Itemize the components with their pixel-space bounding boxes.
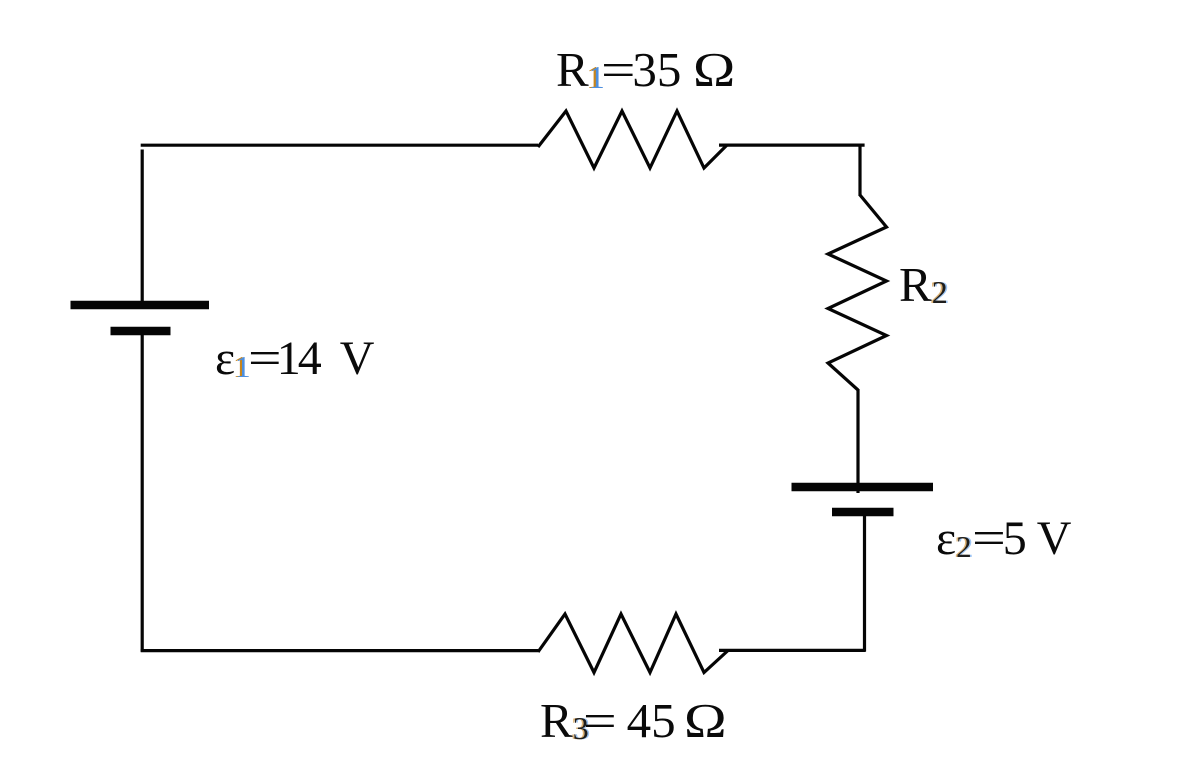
resistor R2: [828, 195, 887, 390]
resistor R1: [538, 111, 727, 168]
battery E2 short plate: [832, 508, 894, 517]
wire bottom-right horizontal: [719, 649, 866, 652]
wire left vertical upper: [141, 150, 144, 302]
label R2: [899, 260, 948, 309]
battery E1 long plate: [71, 301, 210, 310]
label E2 value: [936, 515, 1071, 563]
wire left vertical lower: [141, 334, 144, 652]
wire top-right horizontal: [719, 144, 865, 147]
wire top-left horizontal: [141, 144, 538, 147]
wire right vertical upper: [858, 145, 861, 196]
battery E2 long plate: [792, 483, 934, 492]
label R1 value: [556, 45, 729, 94]
wire battery e2 to bottom: [863, 514, 866, 652]
label E1 value: [215, 335, 374, 383]
resistor R3: [538, 614, 728, 673]
battery E1 short plate: [111, 327, 171, 336]
label R3 value: [540, 696, 720, 745]
wire R2 to battery e2: [856, 389, 859, 493]
wire bottom-left horizontal: [141, 649, 538, 652]
